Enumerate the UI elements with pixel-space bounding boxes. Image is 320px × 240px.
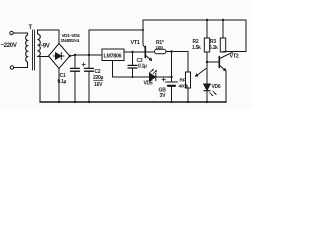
transformer T secondary winding: [38, 33, 41, 56]
node battery on rail: [170, 101, 172, 103]
svg-text:5.1k: 5.1k: [209, 45, 218, 51]
wire bridge minus to bottom rail: [58, 69, 60, 103]
svg-text:400k: 400k: [179, 84, 189, 90]
svg-text:T: T: [29, 25, 33, 31]
node VD6 on rail: [206, 101, 208, 103]
label C1 0.1u: [58, 73, 67, 85]
svg-text:LM7806: LM7806: [104, 54, 122, 60]
wire VD5 to battery node: [156, 76, 172, 78]
node feed T-junction: [142, 29, 144, 31]
svg-text:~9V: ~9V: [40, 44, 50, 50]
regulator U1 LM7806: [102, 49, 124, 61]
potentiometer RP 400k: [186, 52, 207, 103]
wire AC bottom: [14, 62, 28, 68]
wire VT2 base: [207, 61, 219, 63]
underline of 220u: [94, 79, 104, 81]
svg-text:VT2: VT2: [230, 54, 239, 60]
svg-text:3V: 3V: [160, 93, 167, 99]
wire LM7806 output to VT1 base: [124, 51, 145, 53]
transformer T primary winding: [26, 33, 28, 62]
resistor R3: [220, 19, 225, 52]
label GB 3V: [159, 88, 167, 99]
capacitor C2: [82, 55, 94, 102]
node bridge minus on rail: [58, 101, 60, 103]
top rail wire: [143, 19, 246, 21]
node C3 bottom junction: [132, 76, 134, 78]
node battery tap on output wire: [170, 50, 172, 52]
node C2 on rail: [88, 101, 90, 103]
node RP on rail: [187, 101, 189, 103]
wire VT1 collector vertical: [143, 20, 145, 48]
battery GB: [162, 78, 178, 102]
label VD1~VD4 / 1N4002x4: [61, 33, 81, 43]
wire raw DC feed up and over to VT1 collector: [89, 30, 143, 55]
resistor R2: [204, 19, 209, 62]
resistor R1: [146, 49, 188, 53]
svg-text:1.5k: 1.5k: [192, 45, 201, 51]
label R3 5.1k: [209, 39, 218, 51]
capacitor C3: [128, 52, 137, 77]
svg-text:VD5: VD5: [144, 81, 153, 87]
bridge rectifier VD1~VD4: [49, 44, 70, 69]
svg-text:VT1: VT1: [131, 40, 140, 46]
label C3 0.1u: [137, 58, 148, 70]
wire bridge plus to regulator input: [70, 55, 102, 56]
capacitor C1: [71, 55, 80, 102]
wire R3 bottom to VT2 collector net: [223, 51, 246, 54]
svg-text:~220V: ~220V: [1, 43, 17, 49]
AC input terminal top: [10, 31, 13, 34]
wire AC top: [13, 32, 27, 34]
wire battery branch down: [171, 52, 173, 83]
wire secondary bottom to bridge AC: [38, 56, 49, 58]
svg-text:VD1~VD4: VD1~VD4: [62, 33, 81, 38]
label R1* 100: [156, 40, 164, 50]
LED VD5: [150, 69, 157, 81]
transformer T core: [33, 30, 35, 70]
AC input terminal bottom: [10, 66, 13, 69]
bottom rail wire: [40, 101, 226, 103]
wire secondary top to bridge AC: [38, 30, 60, 44]
wire secondary bottom leg to bottom rail: [39, 57, 41, 103]
label C2 220u 16V: [93, 69, 103, 88]
node bridge plus: [69, 55, 71, 57]
svg-text:0.1µ: 0.1µ: [138, 64, 147, 70]
LED VD6: [204, 62, 217, 102]
svg-text:100: 100: [156, 45, 164, 50]
node C2 tap: [88, 54, 90, 56]
transistor VT2: [219, 52, 232, 102]
wire LM7806 ground pin down then right: [113, 61, 150, 78]
wire right edge from top rail: [245, 20, 247, 52]
transistor VT1: [145, 47, 152, 61]
node C1 on rail: [74, 101, 76, 103]
node gnd rail to battery junction: [170, 76, 172, 78]
label R2 1.5k: [192, 39, 201, 51]
node VT2 base: [206, 61, 208, 63]
svg-text:0.1µ: 0.1µ: [58, 79, 67, 85]
svg-text:RP: RP: [180, 78, 187, 84]
svg-text:VD6: VD6: [212, 84, 221, 90]
label RP 400k: [179, 78, 189, 90]
node C3 tap: [131, 51, 133, 53]
node C1 tap: [74, 54, 76, 56]
svg-text:16V: 16V: [94, 82, 103, 88]
svg-text:1N4002×4: 1N4002×4: [61, 38, 80, 43]
